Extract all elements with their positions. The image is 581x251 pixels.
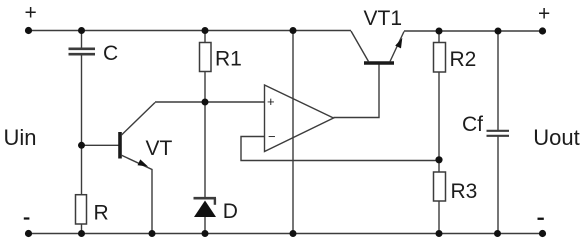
svg-text:R: R (94, 202, 109, 225)
svg-text:+: + (538, 3, 550, 26)
svg-text:D: D (223, 200, 238, 223)
svg-text:VT1: VT1 (364, 7, 403, 30)
svg-text:Cf: Cf (462, 113, 483, 136)
svg-text:+: + (267, 94, 275, 109)
svg-text:+: + (25, 2, 37, 25)
svg-text:R3: R3 (451, 180, 478, 203)
svg-text:−: − (268, 129, 276, 144)
svg-text:VT: VT (146, 137, 173, 160)
svg-text:Uin: Uin (4, 125, 37, 150)
svg-text:C: C (103, 42, 118, 65)
svg-text:R1: R1 (215, 48, 242, 71)
svg-text:Uout: Uout (533, 125, 579, 150)
svg-text:R2: R2 (450, 48, 477, 71)
